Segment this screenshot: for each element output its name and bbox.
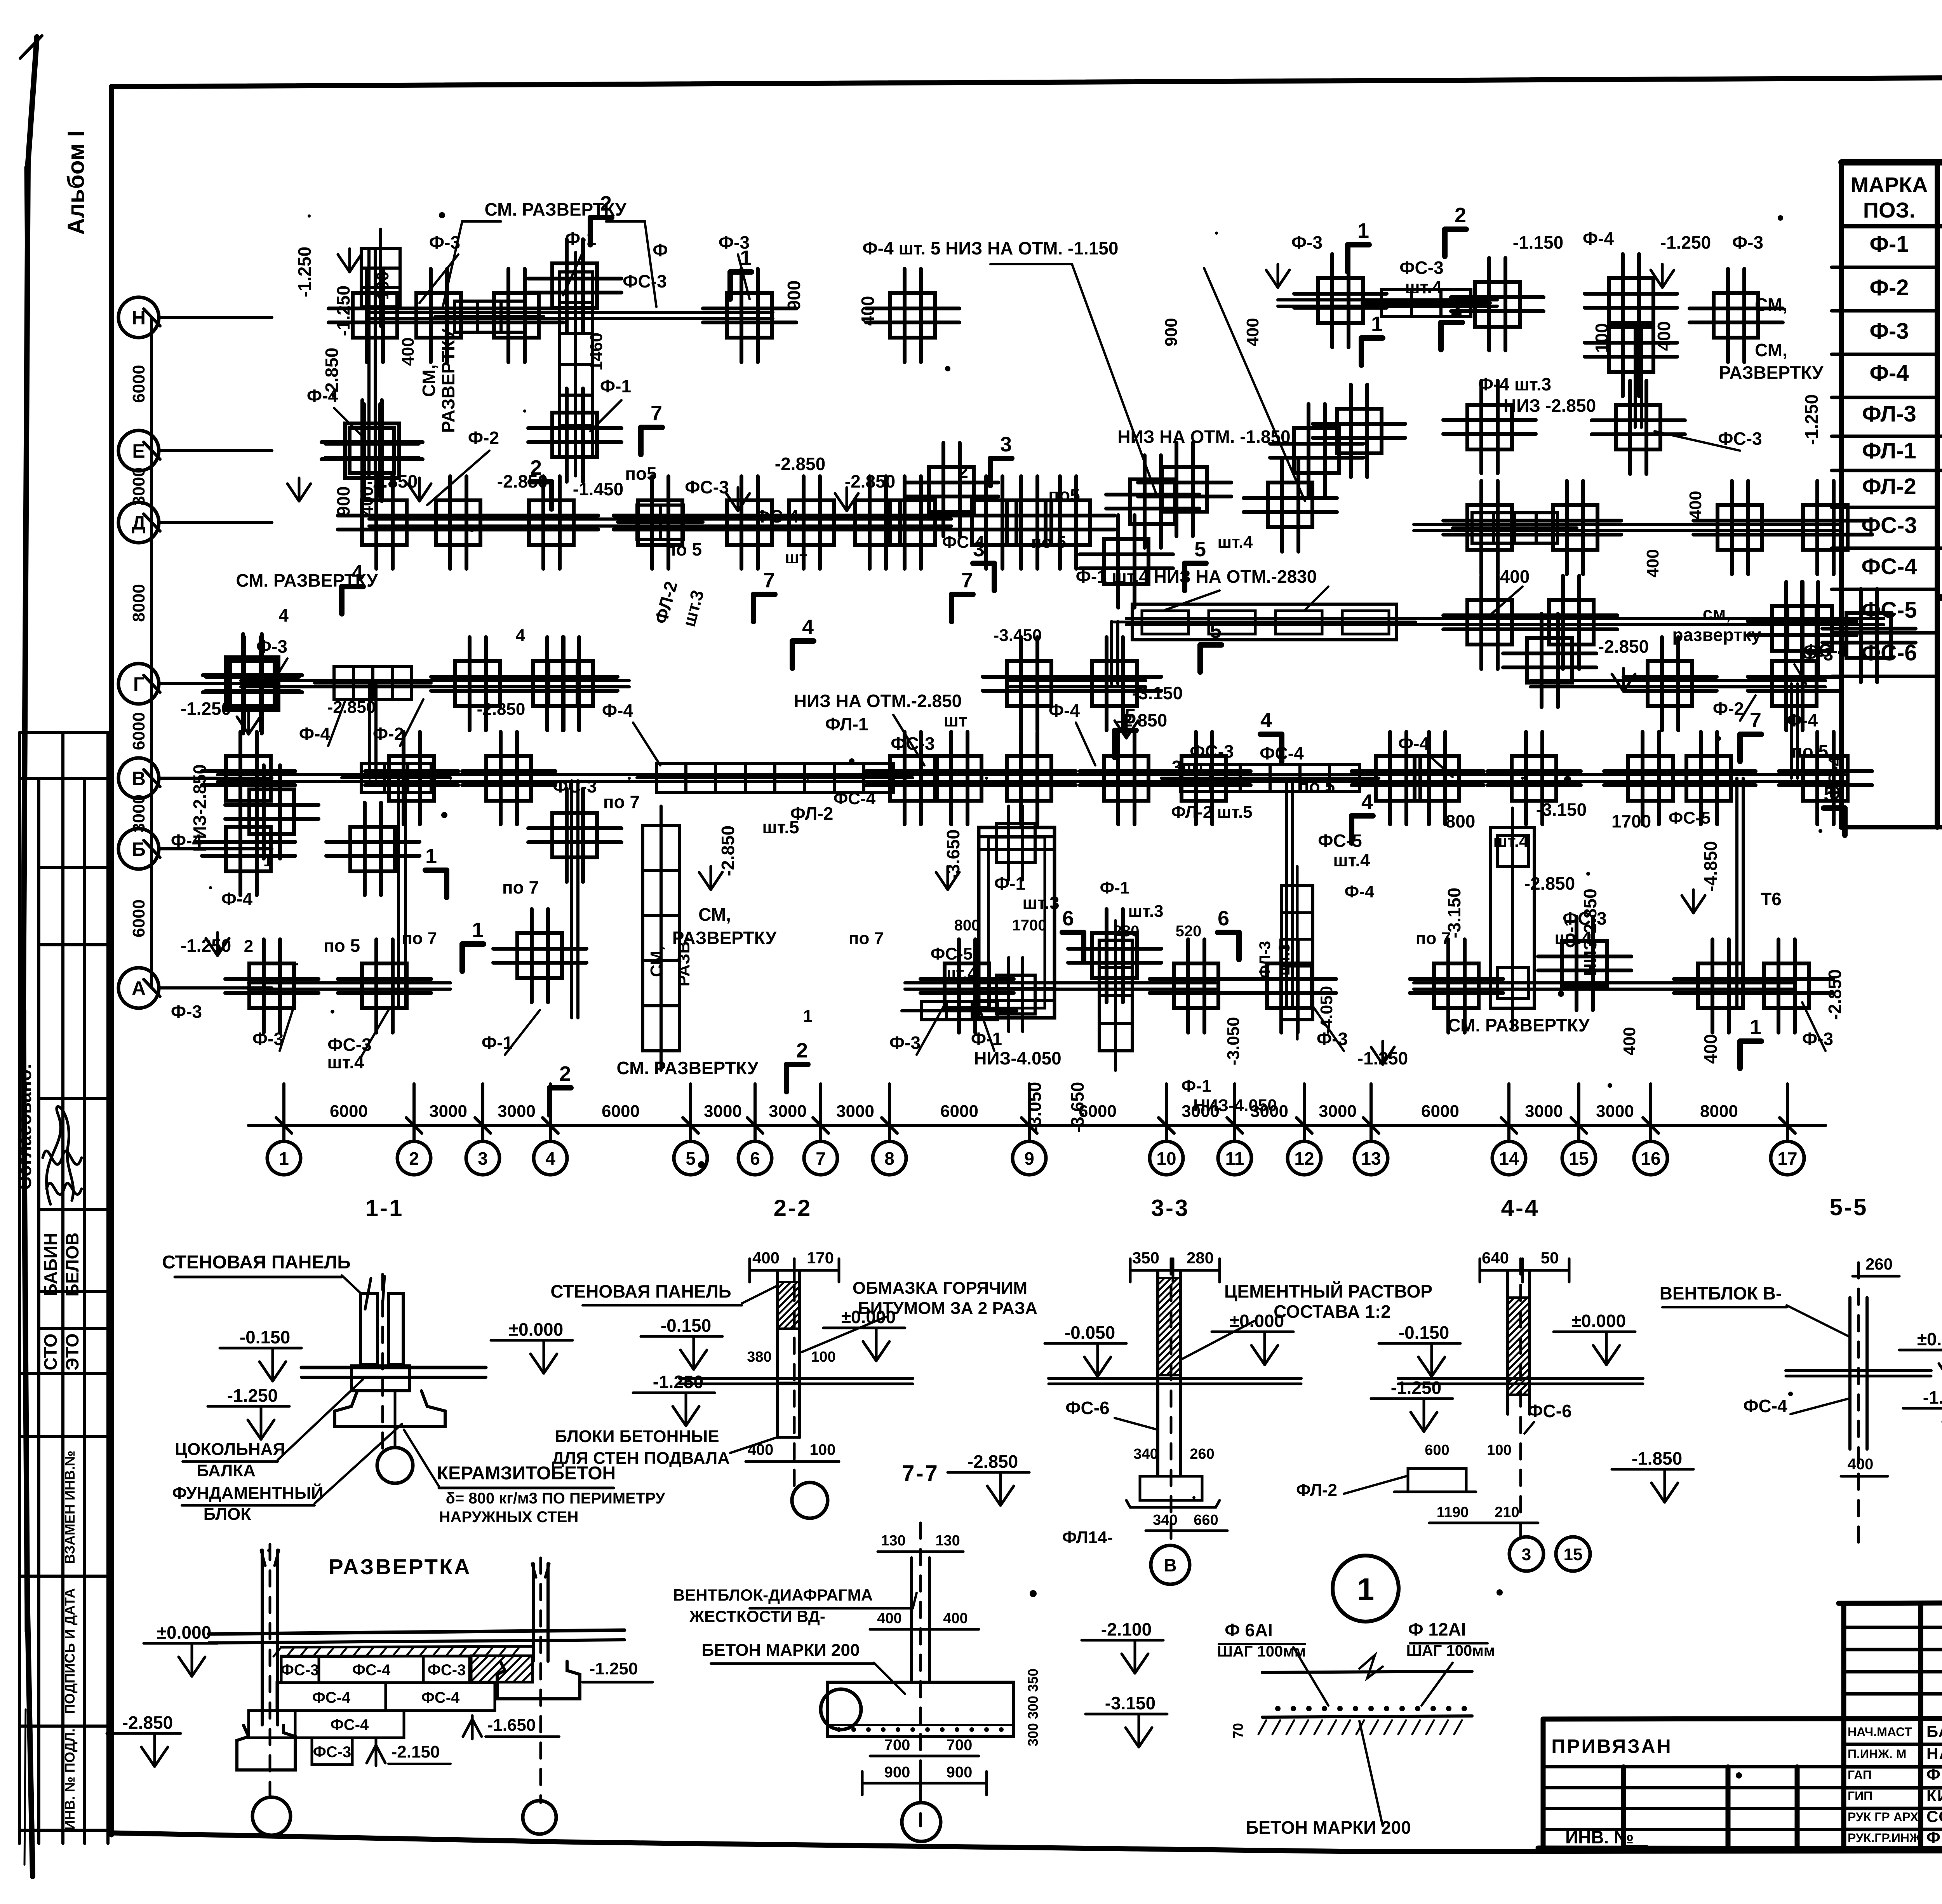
svg-text:2: 2 — [1451, 297, 1462, 320]
svg-text:400: 400 — [1643, 549, 1662, 577]
svg-text:-2.850: -2.850 — [1524, 873, 1575, 894]
svg-text:-1.250: -1.250 — [333, 286, 353, 336]
svg-text:ФС-4: ФС-4 — [421, 1689, 460, 1706]
svg-text:8: 8 — [884, 1148, 894, 1169]
svg-text:ФС-4: ФС-4 — [352, 1662, 391, 1679]
svg-text:-1.150: -1.150 — [1513, 232, 1563, 253]
svg-text:6000: 6000 — [129, 899, 148, 937]
svg-text:Ф-4: Ф-4 — [1787, 710, 1818, 730]
svg-text:ФУНДАМЕНТНЫЙ: ФУНДАМЕНТНЫЙ — [172, 1483, 323, 1503]
svg-text:ШАГ 100мм: ШАГ 100мм — [1406, 1642, 1495, 1659]
svg-text:шт.4: шт.4 — [1554, 928, 1592, 948]
svg-text:Ф 6АI: Ф 6АI — [1225, 1620, 1273, 1640]
svg-text:Альбом I: Альбом I — [63, 131, 89, 235]
svg-text:ШАГ 100мм: ШАГ 100мм — [1217, 1643, 1306, 1660]
svg-text:5-5: 5-5 — [1830, 1194, 1868, 1220]
svg-text:по 5: по 5 — [324, 935, 360, 956]
svg-text:520: 520 — [1176, 923, 1202, 940]
svg-text:ОБМАЗКА ГОРЯЧИМ: ОБМАЗКА ГОРЯЧИМ — [853, 1279, 1027, 1298]
svg-text:15: 15 — [1564, 1545, 1583, 1564]
svg-text:шт.3: шт.3 — [1276, 944, 1293, 976]
svg-text:3000: 3000 — [129, 794, 148, 833]
svg-text:Ф-4: Ф-4 — [1049, 700, 1080, 721]
svg-text:ФС-4: ФС-4 — [834, 789, 876, 808]
svg-text:-2.850: -2.850 — [845, 471, 895, 491]
svg-text:НИЗ -2.850: НИЗ -2.850 — [1503, 395, 1596, 416]
svg-text:4: 4 — [545, 1148, 555, 1169]
svg-text:400: 400 — [1848, 1456, 1874, 1473]
svg-text:ИНВ. № ПОДЛ.: ИНВ. № ПОДЛ. — [62, 1728, 78, 1830]
svg-text:400: 400 — [748, 1441, 774, 1458]
svg-text:210: 210 — [1495, 1504, 1519, 1521]
svg-text:3000: 3000 — [429, 1102, 467, 1121]
svg-text:6000: 6000 — [129, 365, 148, 403]
svg-text:400: 400 — [1654, 321, 1674, 351]
svg-text:260: 260 — [1865, 1255, 1893, 1273]
svg-text:Ф-3: Ф-3 — [171, 1002, 202, 1022]
svg-text:2: 2 — [559, 1062, 571, 1085]
svg-text:-0.150: -0.150 — [1399, 1322, 1449, 1343]
svg-text:ФС-5: ФС-5 — [1669, 808, 1711, 827]
svg-text:1460: 1460 — [587, 333, 606, 371]
svg-text:ЖЕСТКОСТИ ВД-: ЖЕСТКОСТИ ВД- — [689, 1607, 825, 1625]
svg-text:7: 7 — [763, 569, 775, 592]
svg-text:100: 100 — [810, 1441, 836, 1458]
svg-text:по 7: по 7 — [849, 929, 884, 948]
svg-text:6000: 6000 — [330, 1102, 368, 1121]
svg-text:по 7: по 7 — [603, 792, 640, 812]
svg-text:-1.650: -1.650 — [487, 1716, 536, 1735]
svg-text:-3.150: -3.150 — [1536, 800, 1587, 820]
svg-text:-3.650: -3.650 — [1067, 1082, 1088, 1132]
svg-text:шт.3: шт.3 — [1022, 893, 1059, 913]
svg-text:Ф-3: Ф-3 — [1732, 232, 1763, 253]
svg-text:400: 400 — [357, 486, 377, 516]
svg-text:280: 280 — [1114, 923, 1140, 940]
svg-text:-1.250: -1.250 — [653, 1372, 703, 1392]
svg-text:380: 380 — [747, 1349, 771, 1365]
svg-text:Ф: Ф — [653, 240, 668, 260]
svg-text:7: 7 — [816, 1148, 826, 1169]
svg-text:РАЗВЕРТКУ: РАЗВЕРТКУ — [1719, 362, 1824, 383]
svg-text:ВЕНТБЛОК В-: ВЕНТБЛОК В- — [1660, 1283, 1782, 1303]
svg-text:Ф-1: Ф-1 — [600, 376, 631, 396]
svg-text:ВЗАМЕН ИНВ.№: ВЗАМЕН ИНВ.№ — [62, 1451, 78, 1564]
svg-text:640: 640 — [1482, 1249, 1509, 1267]
svg-text:ФС-4: ФС-4 — [942, 533, 985, 552]
svg-text:±0.000: ±0.000 — [509, 1319, 563, 1340]
svg-text:ФС-3: ФС-3 — [281, 1662, 319, 1679]
svg-text:400: 400 — [1686, 491, 1705, 519]
svg-text:170: 170 — [807, 1249, 834, 1267]
svg-text:КИРЮШКИН: КИРЮШКИН — [1926, 1786, 1942, 1805]
svg-text:700: 700 — [884, 1737, 910, 1754]
svg-text:СМ,: СМ, — [1755, 294, 1787, 315]
svg-text:Ф-3: Ф-3 — [252, 1029, 284, 1049]
svg-text:-1.250: -1.250 — [1391, 1378, 1441, 1398]
svg-text:900: 900 — [784, 280, 804, 310]
svg-text:РАЗВ.: РАЗВ. — [674, 937, 693, 987]
svg-text:ФС-3: ФС-3 — [891, 733, 934, 754]
svg-text:1: 1 — [425, 845, 437, 868]
svg-text:400: 400 — [858, 296, 878, 326]
svg-text:ФС-4: ФС-4 — [331, 1716, 369, 1733]
svg-text:-1.250: -1.250 — [1660, 232, 1711, 253]
svg-text:Ф 12АI: Ф 12АI — [1408, 1619, 1466, 1639]
svg-text:-3.150: -3.150 — [1105, 1693, 1155, 1713]
svg-text:400: 400 — [398, 337, 418, 366]
svg-text:шт.4: шт.4 — [1493, 832, 1529, 851]
svg-text:СТО: СТО — [40, 1334, 61, 1371]
svg-text:по5: по5 — [1048, 485, 1080, 505]
svg-text:РУК.ГР.ИНЖ: РУК.ГР.ИНЖ — [1848, 1831, 1921, 1845]
svg-text:Ф-2: Ф-2 — [1869, 275, 1909, 300]
svg-text:шт.3: шт.3 — [1128, 902, 1163, 921]
svg-text:по 5: по 5 — [1298, 776, 1335, 796]
svg-text:СМ,: СМ, — [419, 364, 439, 397]
svg-text:Ф-3: Ф-3 — [1317, 1029, 1348, 1049]
svg-text:ФЛ-2 шт.5: ФЛ-2 шт.5 — [1171, 803, 1252, 822]
svg-text:ФС-3: ФС-3 — [1718, 429, 1762, 449]
svg-text:-2.850: -2.850 — [477, 700, 526, 719]
svg-text:ФЛ-2: ФЛ-2 — [1862, 474, 1916, 499]
svg-text:3000: 3000 — [769, 1102, 807, 1121]
svg-text:см,: см, — [1703, 603, 1731, 624]
svg-text:В: В — [1164, 1555, 1176, 1575]
svg-text:3: 3 — [478, 1148, 488, 1169]
svg-text:7: 7 — [1750, 709, 1761, 732]
svg-text:БАЛКА: БАЛКА — [197, 1461, 256, 1480]
svg-text:НИЗ НА ОТМ.-2.850: НИЗ НА ОТМ.-2.850 — [794, 691, 962, 711]
svg-text:-4.850: -4.850 — [1700, 841, 1721, 892]
svg-text:12: 12 — [1294, 1148, 1314, 1169]
svg-text:340: 340 — [1153, 1512, 1177, 1528]
svg-text:1: 1 — [1371, 312, 1383, 336]
svg-text:3-3: 3-3 — [1151, 1195, 1190, 1221]
svg-text:ФС-3: ФС-3 — [428, 1662, 466, 1679]
svg-text:ФС-4: ФС-4 — [1803, 640, 1848, 660]
svg-text:Согласовано:: Согласовано: — [15, 1063, 35, 1190]
svg-text:ФС-5: ФС-5 — [931, 944, 973, 963]
svg-text:-2.850: -2.850 — [322, 348, 342, 398]
svg-text:2: 2 — [958, 462, 968, 482]
svg-text:6000: 6000 — [129, 712, 148, 750]
svg-text:6000: 6000 — [1421, 1102, 1459, 1121]
svg-text:-1.450: -1.450 — [573, 479, 623, 499]
svg-text:3000: 3000 — [129, 467, 148, 505]
svg-text:5: 5 — [686, 1148, 696, 1169]
svg-text:7: 7 — [961, 569, 973, 592]
svg-text:СМ,: СМ, — [1755, 340, 1787, 360]
svg-text:ГИП: ГИП — [1848, 1789, 1872, 1803]
svg-text:6000: 6000 — [940, 1102, 978, 1121]
svg-text:Ф-4: Ф-4 — [171, 831, 202, 851]
svg-text:-0.050: -0.050 — [1065, 1322, 1115, 1343]
svg-text:600: 600 — [1425, 1442, 1449, 1458]
svg-text:Ф-4: Ф-4 — [1398, 733, 1430, 754]
svg-text:БЕТОН МАРКИ 200: БЕТОН МАРКИ 200 — [702, 1641, 860, 1660]
svg-text:ФС-3: ФС-3 — [553, 776, 597, 796]
svg-text:-2.850: -2.850 — [1825, 969, 1845, 1020]
svg-text:ИНВ. №: ИНВ. № — [1565, 1827, 1634, 1847]
svg-text:8000: 8000 — [129, 584, 148, 622]
svg-text:400: 400 — [877, 1610, 901, 1627]
svg-text:шт.4: шт.4 — [1405, 277, 1442, 297]
svg-text:-2.850: -2.850 — [497, 471, 548, 491]
svg-text:340: 340 — [1133, 1446, 1158, 1462]
svg-text:СМ,: СМ, — [698, 904, 731, 925]
svg-text:-2.850: -2.850 — [327, 698, 376, 717]
svg-text:ЦЕМЕНТНЫЙ РАСТВОР: ЦЕМЕНТНЫЙ РАСТВОР — [1224, 1281, 1432, 1301]
svg-text:3000: 3000 — [1319, 1102, 1357, 1121]
svg-text:по 5: по 5 — [665, 539, 702, 559]
svg-text:БЕЛОВ: БЕЛОВ — [62, 1232, 82, 1296]
svg-text:ФС-6: ФС-6 — [1528, 1401, 1571, 1421]
svg-text:-3.050: -3.050 — [1224, 1017, 1243, 1066]
svg-text:СТЕНОВАЯ ПАНЕЛЬ: СТЕНОВАЯ ПАНЕЛЬ — [162, 1252, 351, 1273]
svg-text:ФС-3: ФС-3 — [685, 477, 729, 497]
svg-text:Ф-4 шт.3: Ф-4 шт.3 — [1478, 374, 1551, 394]
svg-text:Ф-3: Ф-3 — [1802, 1029, 1833, 1049]
svg-text:П.ИНЖ. М: П.ИНЖ. М — [1848, 1747, 1906, 1761]
svg-text:ФЛ-3: ФЛ-3 — [1862, 401, 1916, 427]
svg-text:Ф-1: Ф-1 — [1869, 232, 1909, 257]
svg-text:шт: шт — [944, 710, 968, 730]
svg-text:по 7: по 7 — [402, 929, 437, 948]
svg-text:260: 260 — [1190, 1446, 1214, 1462]
svg-text:-1.250: -1.250 — [590, 1659, 638, 1678]
svg-text:800: 800 — [1446, 811, 1476, 831]
svg-text:Ф-4: Ф-4 — [1345, 882, 1375, 901]
svg-text:НАРУЖНЫХ СТЕН: НАРУЖНЫХ СТЕН — [439, 1509, 579, 1526]
svg-text:900: 900 — [884, 1764, 910, 1781]
svg-text:-2.850: -2.850 — [1117, 710, 1167, 730]
svg-text:Ф-4: Ф-4 — [602, 700, 633, 721]
svg-text:3шт: 3шт — [1172, 757, 1205, 777]
svg-text:3: 3 — [1522, 1545, 1531, 1564]
svg-text:Ф-2: Ф-2 — [468, 428, 499, 448]
svg-text:СМ,: СМ, — [647, 946, 666, 977]
svg-text:-1.250: -1.250 — [181, 699, 231, 719]
svg-text:ФС-4: ФС-4 — [755, 506, 799, 526]
svg-text:БАШЕНКОВ: БАШЕНКОВ — [1926, 1722, 1942, 1740]
svg-text:16: 16 — [1641, 1148, 1660, 1169]
svg-text:-0.150: -0.150 — [240, 1327, 290, 1347]
svg-text:±0.000: ±0.000 — [1917, 1329, 1942, 1349]
svg-text:15: 15 — [1569, 1148, 1589, 1169]
svg-text:±0.000: ±0.000 — [1571, 1311, 1626, 1331]
svg-text:Ф-4: Ф-4 — [1583, 228, 1614, 249]
svg-text:ПОЗ.: ПОЗ. — [1863, 198, 1915, 222]
svg-text:БЛОК: БЛОК — [204, 1505, 251, 1524]
svg-text:СМ. РАЗВЕРТКУ: СМ. РАЗВЕРТКУ — [1448, 1015, 1590, 1035]
svg-text:1190: 1190 — [1437, 1504, 1469, 1521]
svg-text:ФЛ-1: ФЛ-1 — [1862, 438, 1916, 463]
svg-text:ФС-4: ФС-4 — [312, 1689, 351, 1706]
svg-text:50: 50 — [1541, 1249, 1559, 1267]
svg-text:100: 100 — [1592, 323, 1612, 353]
svg-text:по 7: по 7 — [1416, 929, 1451, 948]
svg-text:ФС-3: ФС-3 — [313, 1744, 352, 1761]
svg-text:ФС-3: ФС-3 — [1563, 908, 1606, 928]
svg-text:Ф-1 шт.4 НИЗ НА ОТМ.-2830: Ф-1 шт.4 НИЗ НА ОТМ.-2830 — [1076, 566, 1317, 587]
svg-text:4-4: 4-4 — [1501, 1195, 1540, 1221]
svg-text:Ф-3: Ф-3 — [256, 636, 287, 657]
svg-text:шт.4: шт.4 — [327, 1052, 364, 1072]
svg-text:6: 6 — [750, 1148, 760, 1169]
svg-text:ФЛ-3: ФЛ-3 — [1256, 941, 1274, 978]
svg-text:400: 400 — [1243, 318, 1262, 346]
svg-text:-1.250: -1.250 — [227, 1385, 278, 1406]
svg-text:Ф-4: Ф-4 — [1869, 361, 1909, 386]
svg-text:Ф-2: Ф-2 — [373, 724, 404, 744]
svg-text:2-2: 2-2 — [774, 1195, 812, 1221]
svg-text:13: 13 — [1361, 1148, 1381, 1169]
svg-text:-2.150: -2.150 — [392, 1742, 440, 1761]
svg-text:ФС-3: ФС-3 — [623, 271, 666, 291]
svg-text:1: 1 — [1750, 1016, 1761, 1039]
svg-text:900: 900 — [1162, 318, 1181, 346]
svg-text:2: 2 — [1455, 204, 1466, 227]
svg-text:900: 900 — [333, 486, 353, 516]
svg-text:СМ. РАЗВЕРТКУ: СМ. РАЗВЕРТКУ — [236, 570, 378, 591]
svg-text:ФИЛИППОВ: ФИЛИППОВ — [1926, 1765, 1942, 1784]
svg-text:4: 4 — [802, 615, 814, 639]
svg-text:Т6: Т6 — [1761, 889, 1782, 909]
svg-text:9: 9 — [1024, 1148, 1034, 1169]
svg-text:ФС-6: ФС-6 — [1065, 1398, 1109, 1418]
svg-text:10: 10 — [1156, 1148, 1176, 1169]
svg-text:1: 1 — [803, 1007, 813, 1026]
svg-text:7-7: 7-7 — [902, 1461, 939, 1486]
svg-text:-2.850: -2.850 — [775, 454, 825, 474]
svg-text:-2.850: -2.850 — [718, 826, 738, 876]
svg-text:-1.250: -1.250 — [1801, 394, 1822, 445]
svg-text:900: 900 — [947, 1764, 973, 1781]
svg-text:-2.850: -2.850 — [968, 1451, 1018, 1472]
svg-text:шт.4: шт.4 — [1333, 850, 1370, 870]
svg-text:шт.4: шт.4 — [941, 964, 977, 983]
svg-text:-1.300: -1.300 — [1923, 1387, 1942, 1408]
svg-text:НАЧ.МАСТ: НАЧ.МАСТ — [1848, 1725, 1912, 1739]
svg-text:шт.5: шт.5 — [762, 817, 799, 837]
svg-text:4: 4 — [1260, 709, 1272, 732]
svg-text:Ф-4 шт. 5 НИЗ НА ОТМ. -1.1: Ф-4 шт. 5 НИЗ НА ОТМ. -1.150 — [863, 238, 1119, 258]
svg-text:2: 2 — [244, 937, 253, 956]
svg-text:280: 280 — [1187, 1249, 1214, 1267]
svg-text:ВЕНТБЛОК-ДИАФРАГМА: ВЕНТБЛОК-ДИАФРАГМА — [673, 1586, 873, 1604]
svg-text:100: 100 — [373, 271, 392, 300]
svg-text:РУК ГР АРХ.: РУК ГР АРХ. — [1848, 1810, 1922, 1824]
svg-text:-2.850: -2.850 — [122, 1712, 173, 1733]
svg-text:шт: шт — [785, 548, 807, 567]
svg-text:δ= 800 кг/м3 ПО ПЕРИМЕТРУ: δ= 800 кг/м3 ПО ПЕРИМЕТРУ — [446, 1490, 666, 1507]
svg-text:Ф-2: Ф-2 — [1713, 699, 1744, 719]
svg-text:-3.050: -3.050 — [1025, 1082, 1045, 1132]
svg-text:ФС-4: ФС-4 — [1260, 743, 1304, 763]
svg-text:-0.150: -0.150 — [661, 1315, 711, 1336]
svg-text:8000: 8000 — [1700, 1102, 1738, 1121]
svg-text:1: 1 — [279, 1148, 289, 1169]
svg-text:1: 1 — [1357, 1572, 1375, 1606]
svg-text:Ф-4: Ф-4 — [299, 724, 331, 744]
svg-text:400: 400 — [943, 1610, 968, 1627]
svg-text:СОКОЛОВА: СОКОЛОВА — [1926, 1807, 1942, 1826]
svg-text:100: 100 — [1487, 1442, 1511, 1458]
svg-text:ФЛ-1: ФЛ-1 — [825, 714, 868, 734]
svg-text:ФЛ-2: ФЛ-2 — [1296, 1481, 1337, 1500]
svg-text:ГАП: ГАП — [1848, 1768, 1872, 1782]
svg-text:СМ. РАЗВЕРТКУ: СМ. РАЗВЕРТКУ — [484, 199, 626, 219]
svg-text:5: 5 — [1194, 538, 1206, 561]
svg-text:РАЗВЕРТКУ: РАЗВЕРТКУ — [438, 328, 458, 433]
svg-text:3000: 3000 — [498, 1102, 536, 1121]
svg-text:БИТУМОМ ЗА 2 РАЗА: БИТУМОМ ЗА 2 РАЗА — [858, 1299, 1037, 1318]
svg-text:-3.450: -3.450 — [994, 626, 1042, 645]
svg-text:Ф-3: Ф-3 — [1291, 232, 1323, 253]
svg-text:по 7: по 7 — [502, 877, 539, 897]
svg-text:ПОДПИСЬ И ДАТА: ПОДПИСЬ И ДАТА — [62, 1588, 78, 1714]
svg-text:1: 1 — [263, 851, 273, 870]
svg-text:БЛОКИ БЕТОННЫЕ: БЛОКИ БЕТОННЫЕ — [555, 1427, 719, 1446]
svg-text:400: 400 — [1500, 566, 1530, 587]
svg-text:3000: 3000 — [1525, 1102, 1563, 1121]
svg-text:Ф-1: Ф-1 — [1182, 1077, 1211, 1096]
svg-text:развертку: развертку — [1672, 625, 1761, 645]
svg-text:СОСТАВА 1:2: СОСТАВА 1:2 — [1274, 1301, 1391, 1322]
svg-text:ПРИВЯЗАН: ПРИВЯЗАН — [1551, 1735, 1672, 1757]
svg-text:660: 660 — [1194, 1512, 1218, 1528]
svg-text:по 5: по 5 — [1792, 741, 1828, 761]
svg-text:ФС-5: ФС-5 — [1318, 831, 1362, 851]
svg-text:ФС-4: ФС-4 — [1862, 554, 1917, 579]
svg-text:3: 3 — [1000, 433, 1012, 456]
svg-text:350: 350 — [1132, 1249, 1159, 1267]
svg-text:70: 70 — [1230, 1723, 1246, 1739]
svg-text:130: 130 — [935, 1533, 960, 1549]
svg-text:Ф-3: Ф-3 — [719, 232, 750, 253]
svg-text:3000: 3000 — [836, 1102, 874, 1121]
svg-text:НИЗ-4.050: НИЗ-4.050 — [1193, 1096, 1277, 1115]
svg-text:Ф-1: Ф-1 — [1100, 878, 1130, 897]
svg-text:НАЗАРОВ: НАЗАРОВ — [1926, 1744, 1942, 1763]
svg-text:1700: 1700 — [1611, 811, 1651, 831]
svg-text:400: 400 — [1700, 1034, 1721, 1064]
svg-text:1: 1 — [1357, 219, 1369, 242]
svg-text:3000: 3000 — [704, 1102, 742, 1121]
svg-text:4: 4 — [278, 605, 289, 625]
svg-text:по 5: по 5 — [1031, 533, 1066, 552]
svg-text:Г: Г — [133, 673, 144, 695]
svg-text:БЕТОН МАРКИ 200: БЕТОН МАРКИ 200 — [1246, 1817, 1411, 1838]
svg-text:ФС-4: ФС-4 — [1825, 756, 1845, 800]
svg-text:ФС-3: ФС-3 — [1399, 258, 1443, 278]
svg-text:2: 2 — [796, 1039, 808, 1062]
svg-text:-1.850: -1.850 — [1632, 1448, 1682, 1469]
svg-text:400: 400 — [1620, 1027, 1639, 1055]
svg-text:3000: 3000 — [1596, 1102, 1634, 1121]
svg-text:Ф-1: Ф-1 — [565, 228, 596, 249]
svg-text:ФЛ14-: ФЛ14- — [1062, 1528, 1113, 1547]
svg-text:6: 6 — [1062, 907, 1074, 930]
svg-text:-3.150: -3.150 — [1132, 683, 1183, 703]
svg-text:14: 14 — [1499, 1148, 1519, 1169]
svg-text:СМ. РАЗВЕРТКУ: СМ. РАЗВЕРТКУ — [616, 1058, 759, 1078]
svg-text:-1.250: -1.250 — [294, 247, 315, 297]
svg-text:1-1: 1-1 — [365, 1195, 404, 1221]
svg-text:ЦОКОЛЬНАЯ: ЦОКОЛЬНАЯ — [175, 1440, 285, 1459]
svg-text:ФРЕЙМАН: ФРЕЙМАН — [1926, 1828, 1942, 1847]
